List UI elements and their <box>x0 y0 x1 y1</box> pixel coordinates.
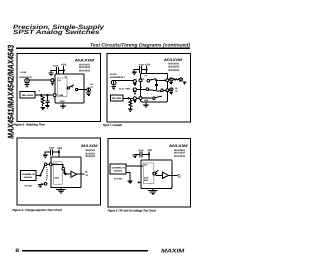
switch SW1 lever fig3 <box>41 165 45 175</box>
wire contact b to ground fig3 <box>40 183 44 185</box>
wire siggen to IC fig1 <box>35 94 53 96</box>
wire junction to cap fig4 <box>142 153 149 155</box>
IC ground wire fig3 <box>60 188 62 189</box>
terminal circle row1 fig2 <box>133 80 136 83</box>
svg-text:COM: COM <box>144 176 149 179</box>
svg-text:MAX4543: MAX4543 <box>79 69 91 72</box>
resistor R out1 fig2 <box>173 79 180 81</box>
switch3 contact fig2 <box>153 97 155 99</box>
IC ground wire fig4 <box>152 189 154 191</box>
svg-text:SIG. GEN.: SIG. GEN. <box>112 97 122 100</box>
svg-text:+5V: +5V <box>61 63 67 66</box>
node C junction fig1 <box>46 94 48 96</box>
node V+ junction fig2 <box>145 68 147 70</box>
svg-text:Figure 7. Crosstalk: Figure 7. Crosstalk <box>103 123 122 127</box>
svg-text:Figure 9. Off- and On-Leakage: Figure 9. Off- and On-Leakage Test Circu… <box>108 208 156 212</box>
wire cap to ground fig1 <box>51 70 56 73</box>
svg-text:COM: COM <box>58 94 63 97</box>
svg-text:±100mV: ±100mV <box>114 170 123 173</box>
svg-text:V+/2: V+/2 <box>114 178 123 181</box>
svg-text:COM: COM <box>54 176 59 179</box>
node R junction fig2 <box>127 97 129 99</box>
switch2 contact fig2 <box>146 88 149 91</box>
ground resistor fig2 <box>128 109 133 111</box>
part list fig2 <box>168 63 180 73</box>
svg-text:1: 1 <box>164 78 165 81</box>
wire siggen to IC fig2 <box>123 97 140 99</box>
svg-text:±100mV: ±100mV <box>24 176 33 179</box>
switch2 arm fig2 <box>148 90 161 92</box>
wire to probe fig4 <box>156 174 163 176</box>
signal generator box fig1 <box>20 92 35 99</box>
switch1 arm fig2 <box>149 79 156 81</box>
part list fig4 <box>174 149 186 158</box>
switch lever fig1 <box>67 87 69 89</box>
capacitor C4 0.1uF fig4 <box>140 152 142 158</box>
svg-text:MAXIM: MAXIM <box>169 144 189 148</box>
wire cap to ground fig3 <box>45 152 50 154</box>
figure frame 4 <box>108 139 191 207</box>
resistor RL1 fig1 <box>41 95 44 106</box>
wire probe out fig4 <box>169 174 178 176</box>
switch NO contact fig1 <box>75 88 77 90</box>
switch2 contact b fig2 <box>161 89 163 91</box>
svg-text:+5V: +5V <box>145 63 151 66</box>
IC ground wire fig2 <box>145 102 147 105</box>
figure frame 3 <box>17 138 100 205</box>
ground output fig1 <box>86 93 91 95</box>
pin circle NC fig2 <box>139 97 142 100</box>
switch throw arc fig3 <box>45 167 48 181</box>
wire address to IC fig1 <box>29 79 51 81</box>
terminal circle row3 fig2 <box>133 97 136 100</box>
switch contact internal fig4 <box>153 172 156 175</box>
svg-text:CL: CL <box>90 85 93 88</box>
node V+ junction fig4 <box>148 153 150 155</box>
switch3 arm fig2 <box>155 96 162 98</box>
out1b terminal line fig2 <box>180 78 182 82</box>
svg-text:CHANNEL IN: CHANNEL IN <box>22 173 35 176</box>
wire switch1 to pin fig2 <box>156 79 166 81</box>
ground row3 terminal fig2 <box>133 101 136 103</box>
op-amp U1 IC body fig1 <box>55 74 84 103</box>
switch SW1 contact b fig3 <box>44 183 47 186</box>
IC body fig3 <box>51 157 81 188</box>
svg-text:GND: GND <box>144 99 149 102</box>
capacitor C3 0.1uF fig3 <box>51 149 53 155</box>
ground address terminal fig2 <box>111 87 116 89</box>
ground under IN pin fig1 <box>51 83 54 85</box>
wire vertical link fig2 <box>155 80 157 90</box>
svg-text:GND: GND <box>60 100 65 103</box>
svg-text:MAX4543: MAX4543 <box>85 155 95 158</box>
svg-text:8: 8 <box>15 248 19 254</box>
node probe fig3 <box>65 173 67 175</box>
pin circle NO fig2 <box>139 79 142 82</box>
svg-text:0.1µF: 0.1µF <box>49 146 55 149</box>
figure frame 2 <box>107 53 190 122</box>
ground bypass fig2 <box>132 72 137 74</box>
capacitor link fig2 <box>155 85 158 86</box>
svg-text:V+: V+ <box>65 76 68 79</box>
wire cap to ground fig4 <box>135 153 140 156</box>
output terminal pin line fig1 <box>88 88 90 92</box>
wire address to IC fig2 <box>114 79 134 81</box>
terminal circle row2 fig2 <box>133 88 136 91</box>
svg-text:N.O.: N.O. <box>144 164 148 167</box>
svg-text:SPST Analog Switches: SPST Analog Switches <box>13 29 100 36</box>
svg-text:0.1µF: 0.1µF <box>139 64 145 67</box>
svg-text:Figure 8. Charge-Injection Tes: Figure 8. Charge-Injection Test Circuit <box>12 208 62 212</box>
svg-text:CL: CL <box>86 174 90 177</box>
resistor RL2 fig2 <box>129 98 132 108</box>
svg-text:V+: V+ <box>144 75 147 78</box>
wire pin to switch3 fig2 <box>142 97 153 99</box>
pin circle out1 fig2 <box>166 79 169 82</box>
svg-text:+2.5V: +2.5V <box>20 71 27 74</box>
figure frame 1 <box>17 53 100 121</box>
svg-text:IN: IN <box>58 79 61 82</box>
ground row2 terminal fig2 <box>133 92 136 94</box>
wire V+ fig4 <box>148 152 150 160</box>
out2 terminal line fig2 <box>170 88 172 92</box>
ground IC fig4 <box>148 191 157 195</box>
terminal pin line fig2 <box>113 80 115 86</box>
ground cap CL1 fig1 <box>45 105 50 107</box>
wire out2 fig2 <box>169 89 173 91</box>
node V+ junction fig3 <box>58 151 60 153</box>
wire source to IC fig4 <box>126 165 143 167</box>
ground bypass fig1 <box>49 73 54 75</box>
svg-text:V+/2: V+/2 <box>24 184 33 187</box>
switch1 contact fig2 <box>147 79 150 82</box>
svg-text:Figure 6. Switching Time: Figure 6. Switching Time <box>14 122 45 126</box>
signal generator box fig2 <box>111 95 124 101</box>
svg-text:0.1µF: 0.1µF <box>53 64 59 67</box>
switch contact internal fig3 <box>62 167 65 170</box>
ground IC fig2 <box>143 105 149 108</box>
svg-text:ADDRESS IN 1: ADDRESS IN 1 <box>110 76 126 79</box>
IC ground wire fig1 <box>62 103 64 106</box>
ground bypass fig3 <box>43 155 48 157</box>
probe buffer fig3 <box>71 171 77 177</box>
probe buffer fig4 <box>163 172 169 178</box>
wire pin to contact fig3 <box>52 164 63 167</box>
out2 terminal fig2 <box>170 88 173 91</box>
IC body fig4 <box>141 160 172 189</box>
out1 terminal fig2 <box>170 78 173 81</box>
capacitor C1 0.1uF fig1 <box>56 67 58 74</box>
ground resistor fig1 <box>40 107 45 109</box>
node switch fig3 <box>39 174 41 176</box>
svg-text:RL: RL <box>85 170 89 173</box>
svg-text:+2.5V: +2.5V <box>110 73 118 76</box>
svg-text:+5V: +5V <box>57 147 62 150</box>
wire probe out fig3 <box>77 173 85 175</box>
svg-text:MAXIM: MAXIM <box>75 58 96 62</box>
svg-text:MAXIM: MAXIM <box>161 248 185 254</box>
wire junction to cap fig3 <box>53 151 59 153</box>
ground source fig4 <box>128 181 133 183</box>
switch arm internal fig4 <box>155 170 159 173</box>
wire switch2 to pin fig2 <box>163 89 166 91</box>
svg-text:MAXIM: MAXIM <box>164 58 184 62</box>
svg-text:MAX4542: MAX4542 <box>174 152 186 155</box>
switch arm fig1 <box>69 85 74 88</box>
logic block fig4 <box>143 163 154 184</box>
svg-text:5: 5 <box>141 86 142 89</box>
ground row1 terminal fig2 <box>133 83 136 85</box>
wire in2 fig2 <box>136 88 146 90</box>
switch arm internal fig3 <box>64 170 66 174</box>
wire to probe fig3 <box>66 173 71 175</box>
svg-text:0 or +5V: 0 or +5V <box>119 88 131 91</box>
out1b terminal fig2 <box>179 78 182 81</box>
svg-text:MAX4541: MAX4541 <box>85 149 95 152</box>
ground out2 fig2 <box>170 92 173 94</box>
svg-text:MAX4542: MAX4542 <box>168 65 180 68</box>
ground IC fig3 <box>56 189 65 193</box>
part list fig1 <box>79 63 91 72</box>
switch arrow fig3 <box>63 172 66 175</box>
ground address terminal fig1 <box>25 85 30 87</box>
ground IC fig1 <box>60 106 66 109</box>
terminal pin line fig1 <box>26 78 28 84</box>
node pin stub fig4 <box>138 181 140 183</box>
svg-text:+5V: +5V <box>147 149 152 152</box>
ground out1b fig2 <box>183 82 186 84</box>
ground switch fig3 <box>38 185 43 187</box>
svg-text:CL: CL <box>178 176 182 179</box>
channel source box fig3 <box>20 171 36 181</box>
svg-text:SIG. GEN.: SIG. GEN. <box>22 94 34 97</box>
pin circle out2 fig2 <box>166 89 169 92</box>
logic block fig1 <box>58 78 67 97</box>
svg-text:MAX4543: MAX4543 <box>174 155 186 158</box>
svg-text:CL: CL <box>175 90 178 93</box>
node V+ junction fig1 <box>63 69 65 71</box>
svg-text:0.1µF: 0.1µF <box>139 149 145 152</box>
node R junction fig1 <box>40 94 42 96</box>
svg-text:CHANNEL IN: CHANNEL IN <box>112 167 126 170</box>
capacitor CL1 fig1 <box>45 95 49 105</box>
pin stub fig4 <box>138 181 141 183</box>
svg-text:RL: RL <box>175 87 178 90</box>
IC body fig2 <box>141 74 168 102</box>
switch arrow fig4 <box>155 172 158 175</box>
wire NO to output fig1 <box>78 89 87 91</box>
svg-text:MAX4543: MAX4543 <box>168 69 180 72</box>
wire junction to cap fig1 <box>58 69 63 71</box>
logic block fig3 <box>54 162 63 184</box>
ground bypass fig4 <box>133 155 138 157</box>
ground out1 fig2 <box>170 82 173 84</box>
header rule <box>16 47 190 49</box>
channel source box fig4 <box>110 164 126 174</box>
wire source stub fig4 <box>126 172 130 180</box>
source terminal address fig1 <box>25 79 30 84</box>
wire cap to ground fig2 <box>134 70 139 72</box>
wire source to switch fig3 <box>36 175 40 177</box>
part list fig3 <box>85 149 95 158</box>
wire contact a to pin fig3 <box>47 163 50 165</box>
pin circle COM fig1 <box>53 94 56 97</box>
svg-text:MAXIM: MAXIM <box>81 144 99 148</box>
output terminal fig1 <box>87 88 91 92</box>
source terminal address fig2 <box>111 80 116 85</box>
svg-text:V: V <box>39 90 41 93</box>
pin circle NO fig3 <box>49 163 52 166</box>
wire V+ fig1 <box>63 66 65 74</box>
node switch1 fig2 <box>155 79 157 81</box>
switch arrow fig1 <box>71 86 73 88</box>
wire V+ fig3 <box>58 149 60 156</box>
switch SW1 contact a fig3 <box>44 163 47 166</box>
capacitor C2 0.1uF fig2 <box>139 66 141 73</box>
svg-text:GND: GND <box>144 179 149 182</box>
pin circle IN fig1 <box>51 79 54 82</box>
wire junction to cap fig2 <box>141 69 146 71</box>
out1 terminal line fig2 <box>170 78 172 82</box>
footer rule <box>22 250 148 252</box>
wire V+ fig2 <box>146 66 148 74</box>
